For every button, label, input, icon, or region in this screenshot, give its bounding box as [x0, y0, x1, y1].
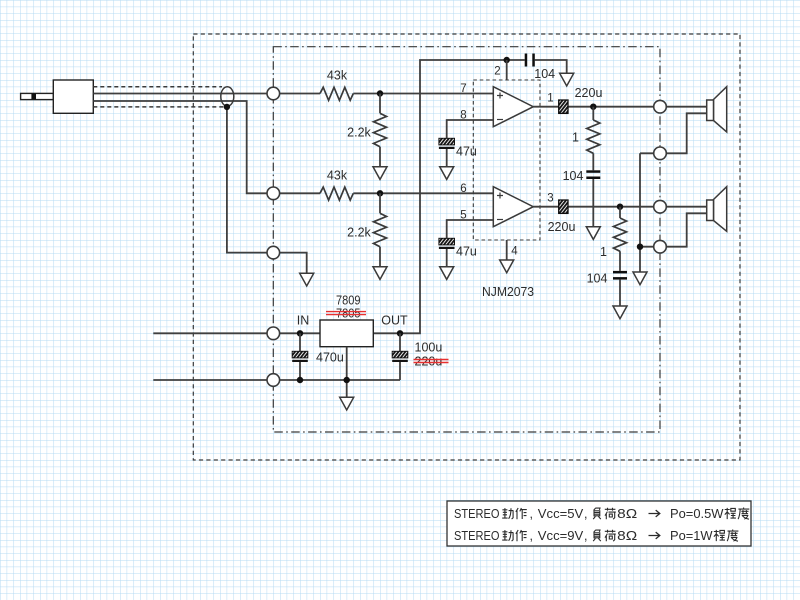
speaker SP2 cone — [714, 187, 727, 232]
node return junction dot — [637, 244, 643, 250]
wire C8 top lead — [299, 333, 301, 351]
wire R5 leads — [592, 107, 594, 227]
svg-text:104: 104 — [534, 67, 555, 81]
capacitor C6 220u output R — [559, 200, 568, 213]
svg-text:8Ω: 8Ω — [617, 507, 637, 521]
node regulator gnd dot — [344, 377, 350, 383]
svg-text:,: , — [584, 529, 587, 543]
ground speaker return — [633, 272, 647, 285]
svg-text:100u: 100u — [415, 341, 443, 355]
svg-text:47u: 47u — [456, 245, 477, 259]
op-amp U1b plus input mark — [497, 193, 503, 199]
wire U1b output — [533, 206, 706, 208]
capacitor C4 104 zobel L — [586, 170, 600, 179]
svg-text:43k: 43k — [327, 69, 348, 83]
svg-text:2: 2 — [494, 66, 500, 78]
capacitor C2 47u — [439, 138, 455, 149]
ground shield — [300, 273, 314, 286]
wire regulator IN net — [273, 332, 320, 334]
wire C8 bottom lead — [299, 362, 301, 380]
wire speaker return bus — [640, 153, 660, 272]
wire L input to amp — [273, 93, 493, 95]
svg-text:2.2k: 2.2k — [347, 126, 371, 140]
node pad input gnd — [267, 246, 280, 259]
op-amp U1a minus input mark — [497, 119, 503, 121]
svg-text:8Ω: 8Ω — [617, 529, 637, 543]
wire C5 to ground — [446, 249, 448, 267]
resistor R1 43k — [320, 87, 353, 100]
resistor R2 2.2k — [374, 113, 387, 146]
node pad out R return — [654, 240, 667, 253]
svg-text:470u: 470u — [316, 351, 344, 365]
cable shield ellipse — [221, 87, 234, 106]
node R output junction dot — [617, 204, 623, 210]
capacitor C9 100u — [392, 351, 408, 362]
node IN junction dot — [297, 330, 303, 336]
wire ground bottom rail — [273, 379, 400, 381]
wire pin 2 stub — [506, 60, 508, 80]
resistor R5 1 — [587, 120, 600, 153]
wire C9 bottom lead — [399, 362, 401, 380]
wire R input to amp — [273, 192, 493, 194]
shield dashed wire bottom — [93, 106, 224, 108]
svg-text:Po=0.5W: Po=0.5W — [670, 507, 724, 521]
svg-text:6: 6 — [460, 183, 466, 195]
svg-text:,: , — [530, 507, 533, 521]
phone plug P1 body — [21, 80, 94, 113]
node pad input R — [267, 187, 280, 200]
speaker SP1 cone — [714, 87, 727, 132]
svg-text:Po=1W: Po=1W — [670, 529, 713, 543]
wire C9 top lead — [399, 333, 401, 351]
svg-text:43k: 43k — [327, 169, 348, 183]
svg-text:220u: 220u — [415, 355, 443, 369]
capacitor C5 47u — [439, 238, 455, 249]
ground regulator — [340, 397, 354, 410]
svg-text:4: 4 — [511, 246, 518, 258]
capacitor C7 104 zobel R — [613, 271, 627, 280]
strike marks 220u — [414, 360, 449, 363]
ground C7 — [613, 306, 627, 319]
ground C5 — [440, 267, 454, 280]
svg-text:IN: IN — [297, 314, 310, 328]
wire Vcc rail from regulator to op-amp — [373, 60, 566, 333]
wire power input plus — [153, 332, 273, 334]
wire R6 leads — [619, 207, 621, 306]
svg-text:104: 104 — [587, 272, 608, 286]
op-amp U1a triangle — [493, 87, 533, 127]
capacitor C1 104 bypass — [525, 54, 535, 67]
note line 2 — [454, 529, 738, 543]
resistor R6 1 — [614, 218, 627, 251]
speaker SP2 driver — [707, 200, 714, 221]
svg-text:7805: 7805 — [336, 307, 361, 321]
wire pin 8 feedback to C2 — [447, 120, 494, 138]
node pad out R — [654, 200, 667, 213]
wire L channel from plug — [93, 93, 273, 95]
capacitor C8 470u — [292, 351, 308, 362]
op-amp U1b triangle — [493, 187, 533, 227]
resistor R4 2.2k — [374, 213, 387, 246]
svg-text:1: 1 — [547, 93, 553, 105]
node pad power plus — [267, 327, 280, 340]
capacitor C3 220u output L — [559, 100, 568, 113]
wire pin 5 feedback to C5 — [447, 220, 494, 238]
node L output junction dot — [590, 104, 596, 110]
svg-text:220u: 220u — [575, 86, 603, 100]
wire C2 to ground — [446, 149, 448, 167]
inner dash-dot amplifier block box — [273, 47, 660, 432]
wire R2 top lead — [379, 94, 381, 167]
svg-text:1: 1 — [572, 131, 579, 145]
wire power input minus — [153, 379, 273, 381]
ground C4 — [586, 227, 600, 240]
phone plug tip ring band — [31, 93, 36, 99]
svg-text:OUT: OUT — [381, 314, 408, 328]
op-amp U1a plus input mark — [497, 93, 503, 99]
svg-text:STEREO: STEREO — [454, 507, 500, 521]
shield dashed wire top — [93, 86, 222, 88]
op-amp U1b minus input mark — [497, 219, 503, 221]
wire regulator ground pin — [346, 347, 348, 398]
op-amp package NJM2073 dashed box — [473, 80, 540, 240]
svg-text:,: , — [530, 529, 533, 543]
svg-text:Vcc=9V: Vcc=9V — [538, 529, 584, 543]
shield ground wire — [227, 107, 307, 273]
note line 1 — [454, 507, 749, 521]
wire pin 4 stub — [506, 240, 508, 260]
resistor R3 43k — [320, 187, 353, 200]
node C8 bottom dot — [297, 377, 303, 383]
wire R4 leads — [379, 193, 381, 266]
shield junction dot — [224, 104, 230, 110]
node pad input L — [267, 87, 280, 100]
svg-text:1: 1 — [600, 245, 607, 259]
speaker SP1 driver — [707, 100, 714, 121]
ground C2 — [440, 167, 454, 180]
svg-text:7: 7 — [460, 83, 466, 95]
strike marks 7805 — [326, 312, 366, 315]
node A2 junction dot — [377, 190, 383, 196]
svg-text:Vcc=5V: Vcc=5V — [538, 507, 584, 521]
regulator U2 box — [320, 320, 373, 347]
ground R4 — [373, 267, 387, 280]
note box — [447, 501, 751, 546]
ground pin 4 — [500, 260, 514, 273]
wire U1a output — [533, 106, 706, 108]
ground R2 — [373, 167, 387, 180]
svg-text:2.2k: 2.2k — [347, 226, 371, 240]
wire speaker L minus — [640, 113, 707, 153]
svg-text:7809: 7809 — [336, 294, 361, 308]
svg-text:,: , — [584, 507, 587, 521]
node Vcc junction dot pin2 — [504, 57, 510, 63]
svg-text:3: 3 — [547, 193, 553, 205]
ground C1 — [560, 73, 574, 86]
node pad out L return — [654, 147, 667, 160]
svg-text:104: 104 — [563, 169, 584, 183]
node A1 junction dot — [377, 90, 383, 96]
wire R channel from plug — [93, 101, 273, 193]
node OUT junction dot — [397, 330, 403, 336]
svg-text:STEREO: STEREO — [454, 529, 500, 543]
node pad power minus — [267, 374, 280, 387]
svg-text:NJM2073: NJM2073 — [482, 285, 534, 299]
svg-text:47u: 47u — [456, 145, 477, 159]
svg-text:220u: 220u — [548, 220, 576, 234]
node pad out L — [654, 100, 667, 113]
outer dashed enclosure box — [193, 34, 740, 460]
wire speaker R minus — [660, 213, 707, 246]
